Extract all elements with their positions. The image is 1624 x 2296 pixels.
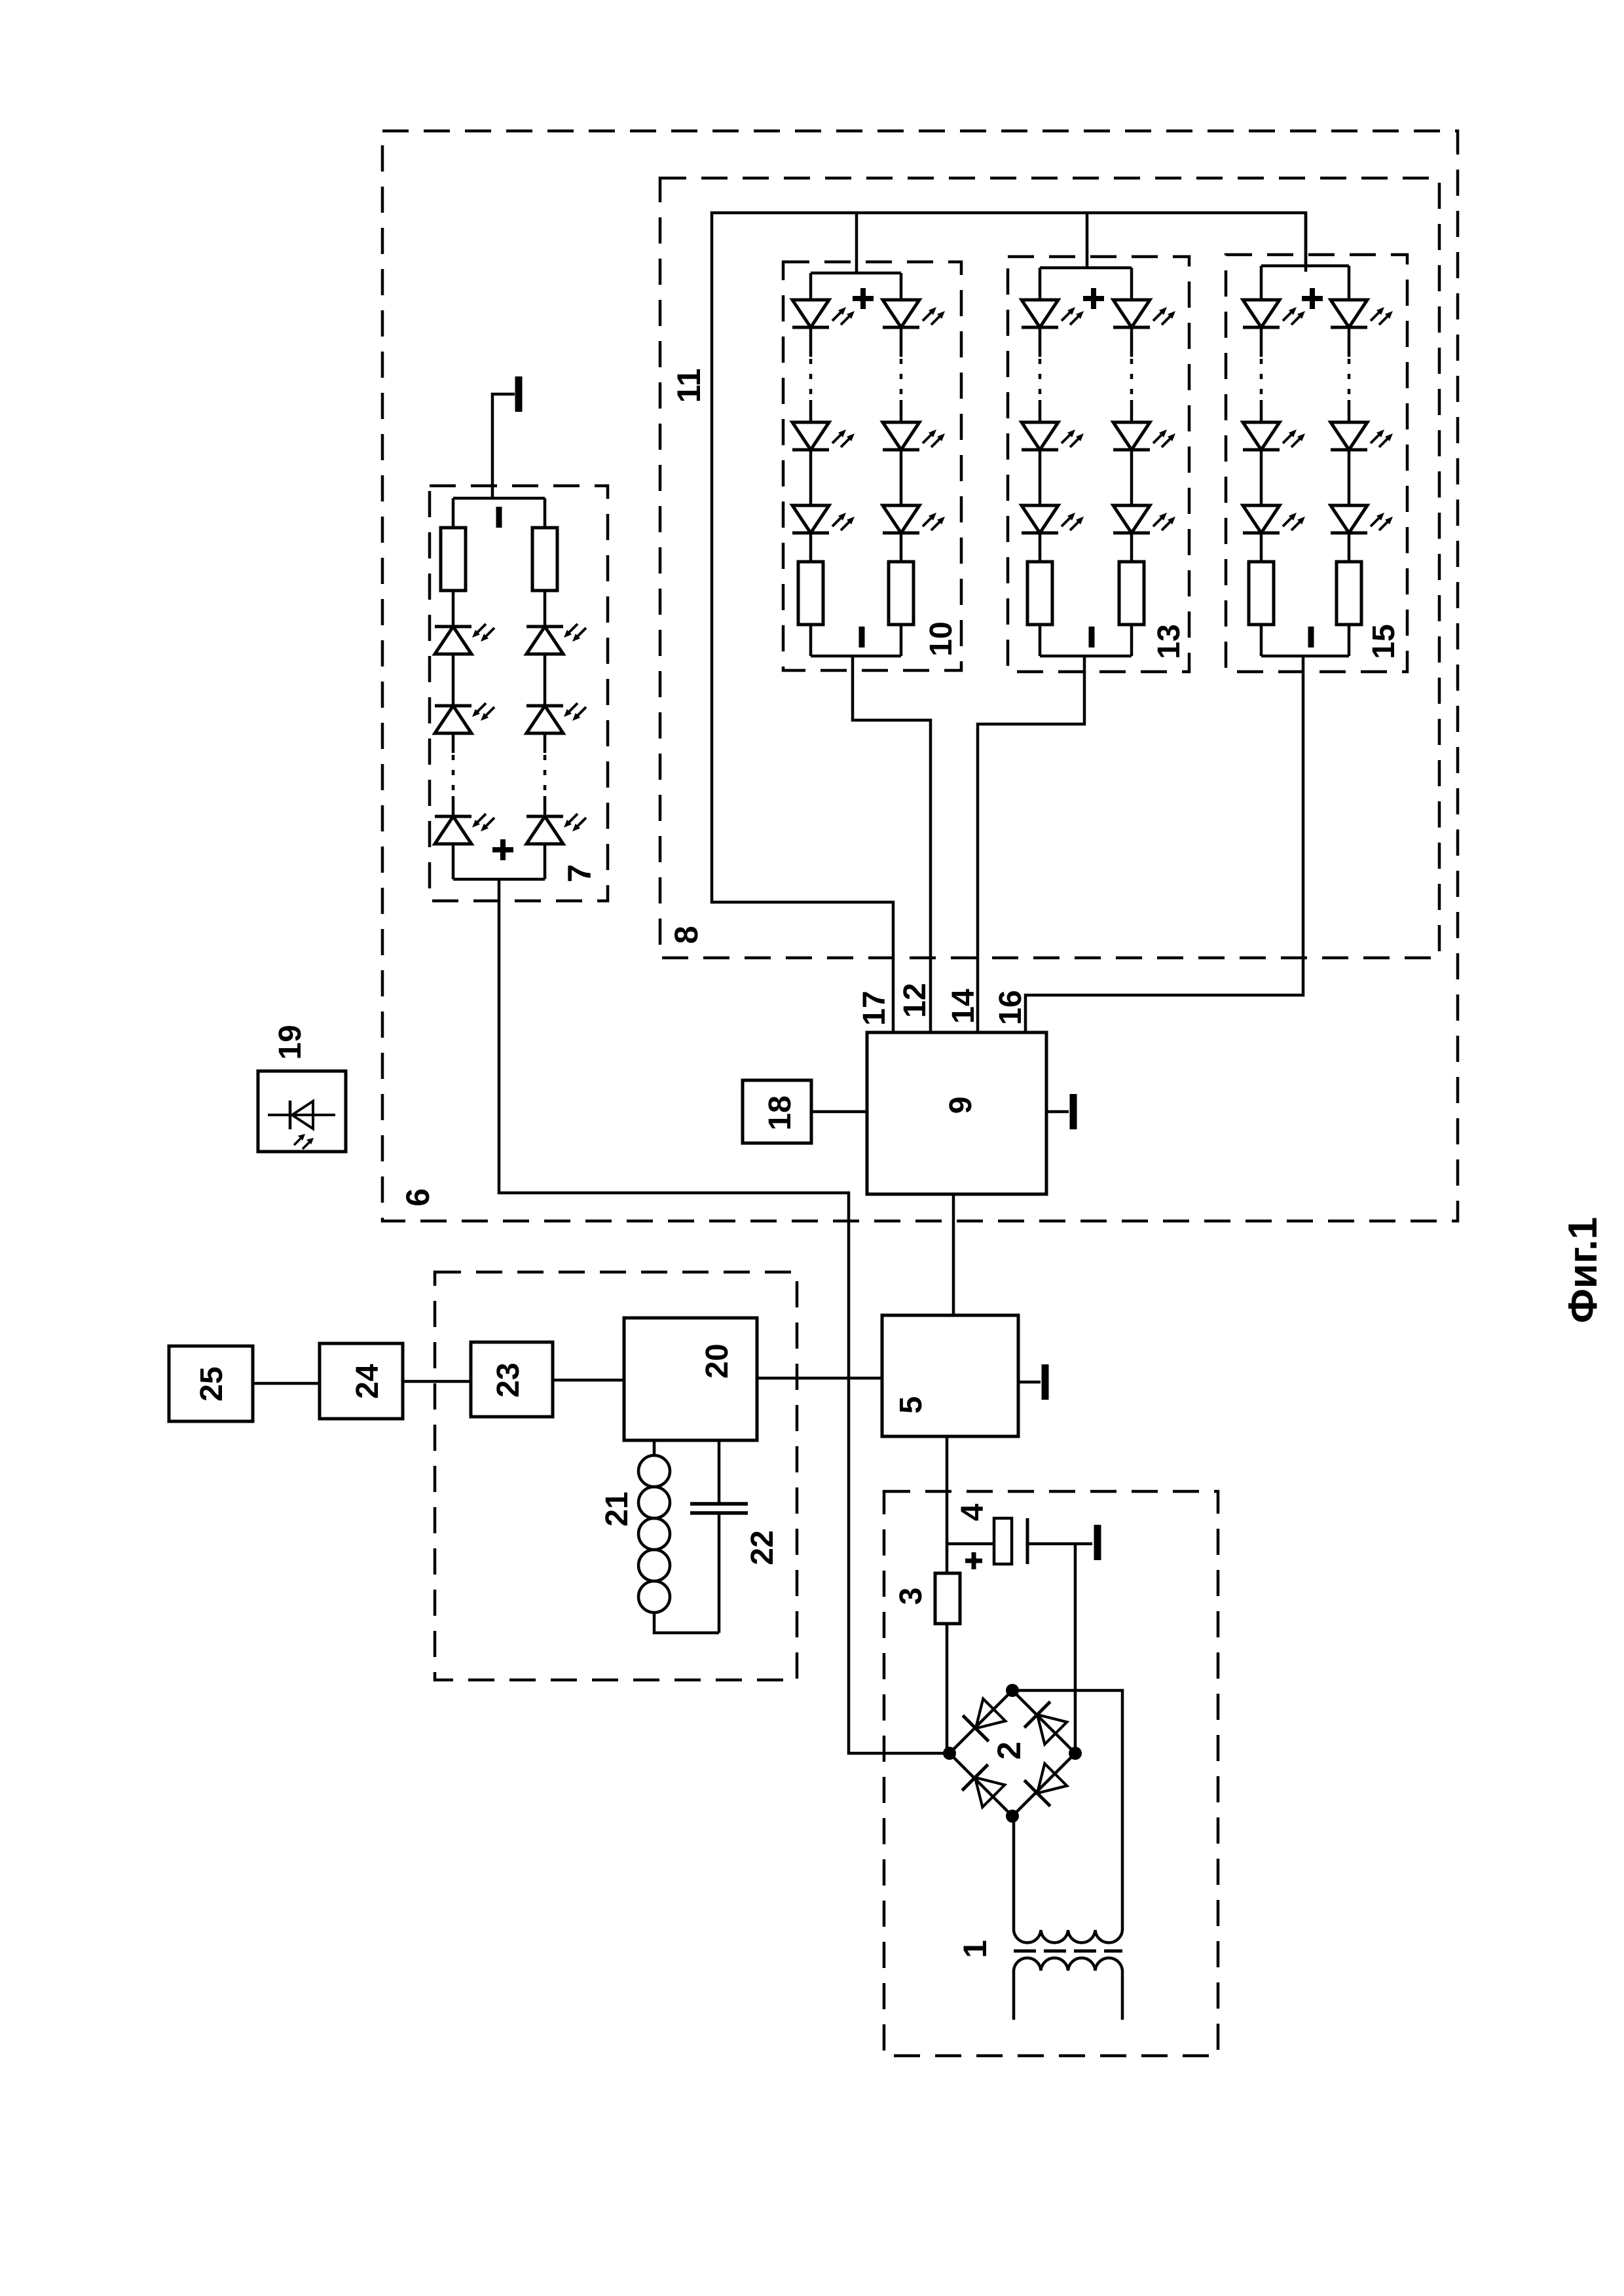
resistor block 15 left column [1249,562,1274,625]
node right vertex of bridge (-) [1069,1747,1082,1760]
mains rectifier dashed box [884,1491,1218,2056]
ground at box 5 [1018,1364,1045,1400]
block 13 bottom bar wire [1040,655,1132,658]
block 13 output wire to driver 9 [978,656,1084,1032]
resistor block 7 left [441,528,466,591]
resistor block 15 right column [1337,562,1361,625]
svg-text:Фиг.1: Фиг.1 [1560,1217,1606,1323]
LED 10.right.3 [883,505,945,533]
bridge diode bottom-left [962,1764,1006,1809]
wire box 18 to box 9 [811,1110,867,1114]
inductor 21 [638,1440,719,1633]
node left vertex of bridge (+) [943,1747,956,1760]
photosensor box 19 [258,1071,346,1152]
electrolytic capacitor 4 [947,1518,1092,1564]
photodiode 7.left.2 [435,703,494,733]
block 15 left column wire [1260,266,1263,300]
block 15 right column wire [1348,266,1351,300]
block 10 minus terminal [859,627,865,647]
LED 13.right.3 [1113,505,1175,533]
wire capacitor 4 node to bridge - node [1074,1544,1077,1753]
block 7 top bar wire [453,497,545,500]
svg-text:22: 22 [745,1530,780,1565]
transformer 1 secondary winding [1014,1958,1122,2020]
transformer 1 primary winding and wire from bridge top vertex [1012,1690,1122,1942]
box 23 [471,1342,553,1417]
ground at capacitor 4 [1094,1525,1101,1560]
ground above block 7 [515,376,523,412]
svg-text:25: 25 [194,1366,229,1401]
control unit box 18 [743,1080,811,1143]
svg-text:14: 14 [946,989,981,1024]
bridge diode top-right [1024,1702,1069,1746]
resistor block 13 right column [1119,562,1144,625]
node bottom vertex of bridge [1006,1810,1019,1823]
LED 10.left.3 [792,505,855,533]
LED 10.right.2 [883,422,945,450]
wire box 20 to box 5 [757,1377,882,1380]
LED module block 8 dashed boundary [660,178,1439,958]
svg-text:3: 3 [894,1588,929,1605]
block 13 right column wire [1130,268,1134,300]
svg-text:17: 17 [857,991,892,1025]
wire box 5 down to rectifier filter [946,1436,949,1573]
block 13 feed wire from + bus [1086,213,1089,268]
wire box 9 to box 5 [952,1194,955,1315]
resistor block 10 right column [889,562,913,625]
resistor block 7 right [532,528,557,591]
LED 10.right.1 [883,300,945,327]
block 7 right column wire [544,498,547,528]
svg-text:1: 1 [957,1940,993,1958]
svg-text:21: 21 [600,1491,635,1526]
svg-text:18: 18 [763,1095,798,1130]
svg-text:15: 15 [1367,624,1401,659]
svg-text:7: 7 [561,864,598,883]
block 7 minus terminal [496,507,502,528]
transformer 1 core [1014,1950,1122,1953]
photodiode 7.left.3 [435,814,494,844]
svg-text:19: 19 [273,1025,308,1059]
svg-text:11: 11 [671,369,707,403]
block 15 output wire to driver 9 [1025,656,1303,1032]
block 15 bottom bar wire [1261,655,1349,658]
resistor block 13 left column [1027,562,1052,625]
LED driver box 9 [867,1032,1046,1194]
LED block 15 dashed box [1226,255,1407,672]
photodiode 7.left.1 [435,624,494,654]
LED 15.left.2 [1243,422,1305,450]
block 13 left column wire [1039,268,1042,300]
bridge rectifier 2 diamond [950,1690,1075,1816]
block 10 left column wire [809,273,813,300]
LED 13.right.2 [1113,422,1175,450]
photodiode group block 7 dashed box [430,486,608,901]
ground at box 9 [1046,1094,1073,1129]
block 10 plus terminal [853,288,874,309]
svg-text:5: 5 [894,1396,929,1414]
block 10 top bar wire [811,272,901,275]
resistor 3 [935,1573,960,1624]
svg-text:20: 20 [700,1343,735,1378]
block 10 right column wire [900,273,903,300]
box 24 [320,1343,403,1419]
svg-text:10: 10 [924,621,959,656]
photodiode 7.right.3 [526,814,586,844]
wire from block 7 to ground [492,394,515,498]
svg-text:23: 23 [491,1362,526,1397]
LED block 10 dashed box [783,262,961,670]
wire block 7 + down to rectifier + node [499,879,950,1753]
block 7 plus terminal [492,839,513,860]
LED 15.right.3 [1331,505,1393,533]
LED 13.left.3 [1022,505,1084,533]
wire net 11: + bus feeding LED strings and pin 17 [712,213,1306,1032]
wire box 23 to box 20 [553,1379,624,1382]
svg-text:12: 12 [898,983,932,1017]
block 15 feed wire from + bus [1304,213,1308,266]
svg-text:2: 2 [991,1741,1027,1760]
block 15 minus terminal [1308,627,1314,647]
block 15 top bar wire [1261,264,1349,268]
LED 13.left.1 [1022,300,1084,327]
photodiode symbol in box 19 [268,1101,335,1149]
LED 15.left.1 [1243,300,1305,327]
svg-text:16: 16 [993,990,1028,1025]
LED 15.right.1 [1331,300,1393,327]
luminaire unit block 6 dashed boundary [382,131,1458,1221]
bridge diode bottom-right [1024,1762,1069,1806]
wire box 24 to box 23 [403,1380,471,1383]
LED 13.left.2 [1022,422,1084,450]
svg-text:13: 13 [1152,624,1187,659]
LED 15.left.3 [1243,505,1305,533]
block 13 top bar wire [1040,266,1132,270]
block 10 output wire to driver 9 [853,656,931,1032]
power supply box 5 [882,1315,1018,1436]
photodiode 7.right.2 [526,703,586,733]
box 25 [169,1346,253,1421]
svg-text:24: 24 [350,1364,385,1399]
plus at capacitor 4 [965,1552,982,1569]
node top vertex of bridge [1006,1684,1019,1697]
LED 13.right.1 [1113,300,1175,327]
block 13 plus terminal [1083,288,1104,309]
bridge diode top-left [963,1697,1007,1741]
svg-text:9: 9 [944,1097,978,1114]
LED 10.left.2 [792,422,855,450]
block 7 bottom bar wire [453,878,545,881]
block 13 minus terminal [1089,627,1095,647]
svg-text:6: 6 [399,1188,436,1207]
LED block 13 dashed box [1008,257,1189,672]
block 7 left column wire [452,498,455,528]
block 10 feed wire from + bus [855,213,858,273]
svg-text:8: 8 [668,926,705,944]
resonant converter dashed box [435,1272,797,1680]
LED 15.right.2 [1331,422,1393,450]
block 15 plus terminal [1302,288,1323,309]
block 10 bottom bar wire [811,655,901,658]
capacitor 22 [690,1440,748,1633]
photodiode 7.right.1 [526,624,586,654]
wire resistor 3 to bridge + node [946,1624,949,1753]
box 20 [624,1318,757,1440]
svg-text:4: 4 [955,1503,990,1521]
resistor block 10 left column [798,562,823,625]
wire box 25 to box 24 [253,1382,320,1385]
LED 10.left.1 [792,300,855,327]
